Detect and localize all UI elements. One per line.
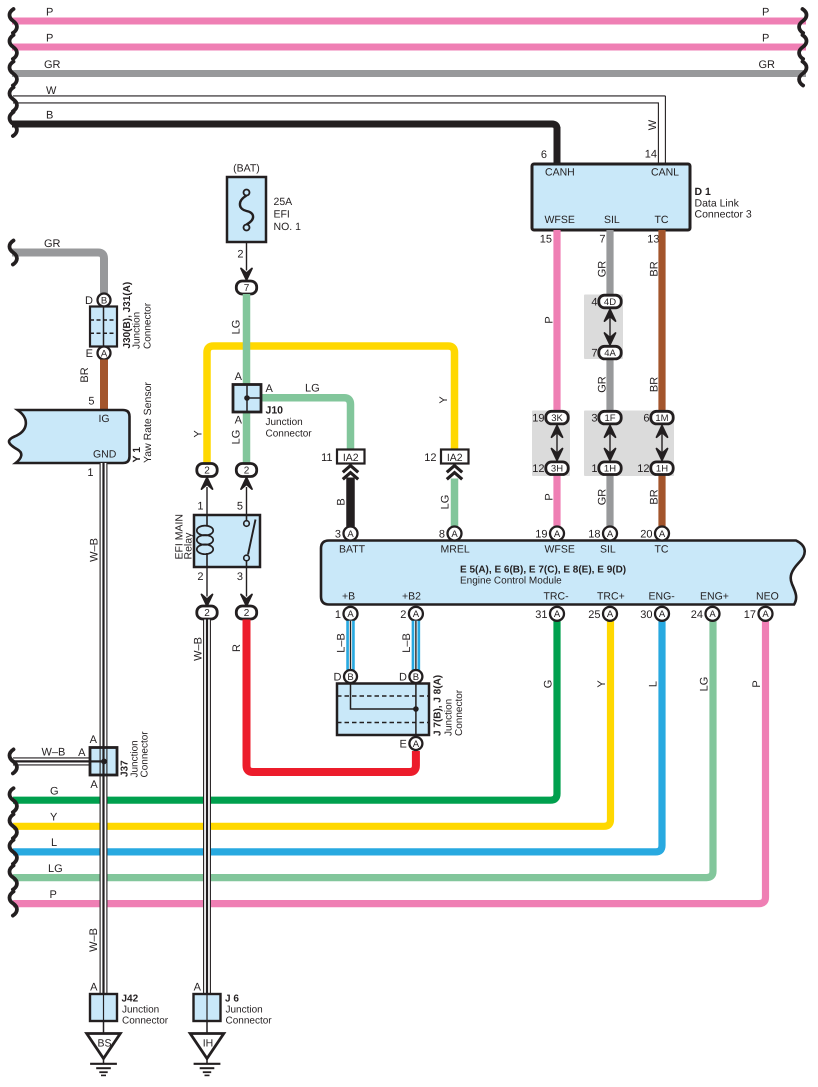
svg-text:GR: GR — [597, 261, 609, 278]
svg-text:P: P — [762, 33, 769, 45]
svg-text:2: 2 — [204, 466, 210, 477]
svg-text:L–B: L–B — [401, 633, 413, 653]
svg-text:A: A — [554, 529, 561, 540]
svg-text:Connector: Connector — [266, 429, 313, 440]
svg-text:4D: 4D — [604, 297, 616, 308]
svg-text:1: 1 — [591, 463, 597, 475]
svg-text:SIL: SIL — [600, 544, 616, 556]
svg-text:W: W — [647, 119, 659, 130]
svg-text:Y: Y — [50, 812, 58, 824]
svg-text:P: P — [544, 493, 556, 500]
svg-text:13: 13 — [647, 234, 659, 246]
svg-text:IA2: IA2 — [447, 452, 463, 464]
svg-text:A: A — [194, 982, 202, 994]
svg-text:A: A — [607, 529, 614, 540]
svg-text:18: 18 — [588, 529, 600, 541]
svg-text:2: 2 — [244, 608, 250, 619]
svg-text:TRC+: TRC+ — [597, 591, 625, 603]
svg-text:12: 12 — [637, 463, 649, 475]
svg-text:EFI: EFI — [274, 209, 290, 221]
svg-text:NO. 1: NO. 1 — [274, 221, 302, 233]
svg-text:Y: Y — [193, 430, 205, 438]
svg-text:W–B: W–B — [193, 637, 205, 661]
svg-text:2: 2 — [204, 608, 210, 619]
svg-text:CANH: CANH — [545, 167, 575, 179]
svg-text:A: A — [235, 371, 243, 383]
svg-text:BR: BR — [649, 377, 661, 392]
svg-text:P: P — [544, 316, 556, 323]
svg-text:GND: GND — [93, 449, 117, 461]
svg-text:2: 2 — [237, 249, 243, 261]
svg-text:BS: BS — [97, 1037, 111, 1049]
svg-text:Junction: Junction — [122, 1005, 159, 1016]
svg-text:30: 30 — [640, 609, 652, 621]
svg-text:6: 6 — [643, 413, 649, 425]
svg-text:Connector: Connector — [454, 689, 465, 736]
svg-text:D 1: D 1 — [695, 186, 712, 198]
svg-text:P: P — [46, 33, 53, 45]
svg-text:7: 7 — [244, 283, 250, 294]
svg-text:W–B: W–B — [42, 747, 66, 759]
svg-text:3K: 3K — [551, 413, 563, 424]
svg-text:A: A — [413, 609, 420, 620]
svg-text:1: 1 — [335, 609, 341, 621]
svg-text:+B: +B — [342, 591, 355, 603]
svg-text:17: 17 — [744, 609, 756, 621]
svg-text:P: P — [751, 680, 763, 687]
svg-text:1: 1 — [197, 501, 203, 513]
svg-text:2: 2 — [244, 466, 250, 477]
svg-text:E: E — [86, 348, 93, 360]
svg-text:BR: BR — [649, 489, 661, 504]
svg-text:ENG+: ENG+ — [700, 591, 729, 603]
svg-text:+B2: +B2 — [402, 591, 421, 603]
svg-text:Junction: Junction — [132, 312, 143, 349]
svg-text:J42: J42 — [122, 994, 139, 1005]
svg-text:D: D — [399, 672, 407, 684]
svg-text:LG: LG — [699, 677, 711, 692]
svg-text:B: B — [46, 110, 53, 122]
svg-text:Junction: Junction — [444, 699, 455, 736]
svg-text:WFSE: WFSE — [545, 214, 575, 226]
svg-text:ENG-: ENG- — [649, 591, 676, 603]
svg-text:L–B: L–B — [336, 633, 348, 653]
svg-text:LG: LG — [440, 495, 452, 510]
svg-text:IH: IH — [203, 1037, 214, 1049]
svg-text:1M: 1M — [655, 413, 668, 424]
svg-text:B: B — [101, 295, 107, 306]
svg-text:L: L — [51, 837, 57, 849]
svg-text:A: A — [90, 982, 98, 994]
svg-text:25: 25 — [588, 609, 600, 621]
svg-text:Connector: Connector — [143, 302, 154, 349]
svg-text:3H: 3H — [551, 464, 563, 475]
svg-text:Yaw Rate Sensor: Yaw Rate Sensor — [142, 382, 154, 463]
svg-text:GR: GR — [44, 59, 61, 71]
svg-text:IA2: IA2 — [343, 452, 359, 464]
svg-text:7: 7 — [599, 234, 605, 246]
svg-text:TC: TC — [655, 214, 669, 226]
svg-text:GR: GR — [597, 489, 609, 506]
svg-text:3: 3 — [591, 413, 597, 425]
svg-text:14: 14 — [645, 149, 657, 161]
svg-text:Engine Control Module: Engine Control Module — [460, 576, 562, 587]
svg-text:R: R — [231, 644, 243, 652]
svg-text:A: A — [90, 779, 98, 791]
svg-text:A: A — [235, 415, 243, 427]
svg-text:8: 8 — [439, 529, 445, 541]
svg-text:G: G — [543, 680, 555, 689]
svg-text:20: 20 — [640, 529, 652, 541]
svg-text:19: 19 — [532, 413, 544, 425]
svg-text:GR: GR — [597, 376, 609, 393]
svg-text:Connector: Connector — [140, 731, 151, 778]
svg-text:A: A — [347, 609, 354, 620]
svg-text:BR: BR — [649, 261, 661, 276]
svg-text:A: A — [451, 529, 458, 540]
svg-text:Junction: Junction — [266, 417, 303, 428]
svg-text:Junction: Junction — [226, 1005, 263, 1016]
svg-text:6: 6 — [541, 149, 547, 161]
svg-text:Connector: Connector — [122, 1016, 169, 1027]
svg-text:D: D — [85, 295, 93, 307]
svg-text:Y: Y — [596, 680, 608, 688]
svg-text:J10: J10 — [266, 405, 284, 417]
svg-text:A: A — [266, 383, 274, 395]
svg-text:2: 2 — [400, 609, 406, 621]
svg-text:TRC-: TRC- — [544, 591, 570, 603]
svg-text:P: P — [46, 7, 53, 19]
svg-text:B: B — [347, 672, 353, 683]
svg-text:A: A — [659, 529, 666, 540]
svg-text:1F: 1F — [604, 413, 615, 424]
svg-text:GR: GR — [44, 238, 61, 250]
svg-text:E: E — [400, 739, 407, 751]
svg-text:W–B: W–B — [89, 538, 101, 562]
svg-text:J 6: J 6 — [225, 994, 239, 1005]
svg-text:4A: 4A — [604, 348, 616, 359]
svg-text:L: L — [648, 681, 660, 687]
svg-text:15: 15 — [540, 234, 552, 246]
svg-text:A: A — [347, 529, 354, 540]
svg-text:1: 1 — [87, 467, 93, 479]
svg-text:BATT: BATT — [339, 544, 366, 556]
svg-text:LG: LG — [305, 382, 320, 394]
svg-text:A: A — [762, 609, 769, 620]
svg-text:(BAT): (BAT) — [233, 163, 260, 175]
svg-text:A: A — [659, 609, 666, 620]
svg-text:MREL: MREL — [441, 544, 470, 556]
svg-text:G: G — [50, 786, 59, 798]
svg-text:P: P — [50, 889, 57, 901]
svg-text:7: 7 — [591, 348, 597, 360]
svg-text:LG: LG — [48, 863, 63, 875]
svg-text:SIL: SIL — [604, 214, 620, 226]
svg-text:LG: LG — [231, 430, 243, 445]
svg-text:A: A — [78, 747, 86, 759]
svg-text:5: 5 — [88, 396, 94, 408]
svg-text:1H: 1H — [604, 464, 616, 475]
svg-text:A: A — [413, 739, 420, 750]
svg-text:B: B — [336, 498, 348, 505]
svg-text:A: A — [709, 609, 716, 620]
svg-text:3: 3 — [335, 529, 341, 541]
svg-text:GR: GR — [759, 59, 776, 71]
svg-text:3: 3 — [237, 571, 243, 583]
svg-text:A: A — [90, 734, 98, 746]
svg-text:D: D — [334, 672, 342, 684]
svg-text:4: 4 — [591, 297, 597, 309]
svg-text:Y: Y — [438, 396, 450, 404]
svg-text:B: B — [413, 672, 419, 683]
svg-text:25A: 25A — [274, 196, 293, 208]
svg-text:24: 24 — [691, 609, 703, 621]
svg-text:A: A — [607, 609, 614, 620]
svg-text:1H: 1H — [656, 464, 668, 475]
svg-text:NEO: NEO — [756, 591, 779, 603]
svg-text:BR: BR — [79, 367, 91, 382]
svg-text:Connector 3: Connector 3 — [695, 209, 752, 221]
svg-text:P: P — [762, 7, 769, 19]
svg-text:11: 11 — [321, 452, 332, 464]
svg-text:WFSE: WFSE — [545, 544, 575, 556]
svg-text:W–B: W–B — [88, 928, 100, 952]
svg-text:2: 2 — [197, 571, 203, 583]
svg-text:12: 12 — [424, 452, 436, 464]
svg-text:31: 31 — [535, 609, 547, 621]
svg-text:W: W — [46, 85, 57, 97]
svg-text:5: 5 — [237, 501, 243, 513]
svg-text:TC: TC — [655, 544, 669, 556]
svg-text:A: A — [101, 348, 108, 359]
svg-text:A: A — [554, 609, 561, 620]
svg-text:Relay: Relay — [183, 532, 195, 560]
svg-text:Connector: Connector — [226, 1016, 273, 1027]
svg-text:19: 19 — [535, 529, 547, 541]
svg-text:J 7(B), J 8(A): J 7(B), J 8(A) — [433, 675, 444, 736]
svg-text:12: 12 — [532, 463, 544, 475]
svg-text:IG: IG — [99, 413, 110, 425]
svg-text:LG: LG — [231, 320, 243, 335]
svg-text:CANL: CANL — [651, 167, 679, 179]
svg-text:E 5(A), E 6(B), E 7(C), E 8(E): E 5(A), E 6(B), E 7(C), E 8(E), E 9(D) — [460, 565, 626, 576]
